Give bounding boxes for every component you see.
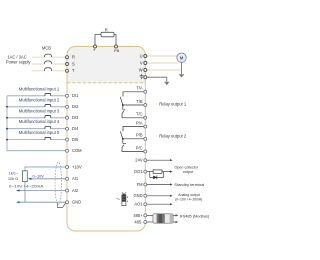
svg-text:GND: GND [72, 200, 81, 205]
svg-text:DI2: DI2 [72, 104, 79, 109]
svg-text:Relay output 1: Relay output 1 [159, 101, 187, 106]
svg-text:Multifunctional input 5: Multifunctional input 5 [19, 130, 60, 135]
svg-text:W: W [139, 67, 143, 72]
svg-text:DI4: DI4 [72, 126, 79, 131]
svg-text:485+: 485+ [133, 213, 143, 218]
svg-text:output: output [183, 169, 194, 174]
svg-text:P/C: P/C [136, 145, 143, 150]
svg-text:Multifunctional input 4: Multifunctional input 4 [19, 119, 60, 124]
svg-text:MCB: MCB [42, 46, 51, 51]
svg-text:R: R [105, 27, 108, 32]
svg-text:FM: FM [137, 182, 144, 187]
svg-text:DI5: DI5 [72, 137, 79, 142]
svg-text:DI1: DI1 [72, 93, 79, 98]
svg-text:Relay output 2: Relay output 2 [159, 134, 187, 139]
svg-text:T/A: T/A [136, 86, 143, 91]
svg-text:Multifunctional input 1: Multifunctional input 1 [19, 86, 60, 91]
svg-text:485-: 485- [134, 219, 143, 224]
svg-text:M: M [180, 55, 184, 60]
svg-text:Multifunctional input 2: Multifunctional input 2 [19, 97, 60, 102]
svg-text:DI3: DI3 [72, 115, 79, 120]
svg-text:U: U [140, 53, 143, 58]
svg-text:10k Ω: 10k Ω [8, 176, 18, 181]
svg-text:RS485 (Modbus): RS485 (Modbus) [180, 213, 210, 218]
svg-text:P/A: P/A [136, 120, 143, 125]
svg-text:P/B: P/B [136, 133, 143, 138]
svg-text:24V: 24V [135, 158, 143, 163]
svg-text:0~10V: 0~10V [33, 174, 45, 179]
svg-text:+: + [93, 48, 96, 53]
svg-text:R: R [72, 55, 75, 60]
svg-text:S: S [72, 61, 75, 66]
svg-text:T/B: T/B [136, 99, 143, 104]
svg-text:DO1: DO1 [134, 169, 143, 174]
svg-text:PB: PB [114, 48, 120, 53]
svg-text:COM: COM [72, 148, 82, 153]
svg-text:(0~10V / 4~20mA): (0~10V / 4~20mA) [175, 196, 203, 201]
svg-text:Standby terminal: Standby terminal [174, 182, 204, 187]
svg-text:AI1: AI1 [72, 176, 79, 181]
svg-text:GND: GND [133, 193, 142, 198]
svg-text:+10V: +10V [72, 164, 82, 169]
svg-text:AI2: AI2 [72, 188, 79, 193]
svg-text:T/C: T/C [136, 112, 143, 117]
svg-text:0~10V / 4~20mA: 0~10V / 4~20mA [9, 184, 44, 189]
svg-text:Power supply: Power supply [6, 60, 32, 65]
svg-text:V: V [140, 60, 143, 65]
svg-text:Multifunctional input 3: Multifunctional input 3 [19, 108, 60, 113]
svg-text:AO1: AO1 [134, 202, 143, 207]
